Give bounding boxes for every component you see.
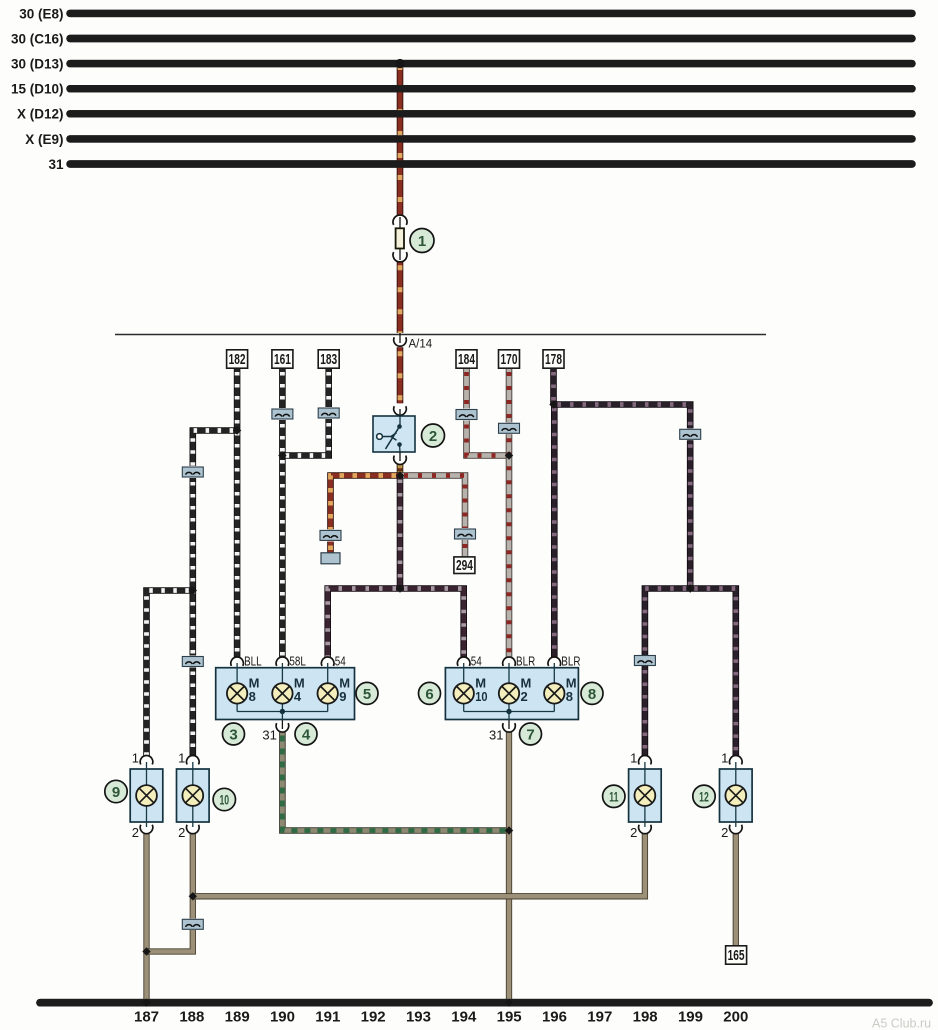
svg-text:10: 10 [475, 689, 488, 704]
svg-text:8: 8 [588, 686, 596, 703]
svg-text:192: 192 [361, 1009, 386, 1026]
svg-text:10: 10 [219, 792, 229, 808]
svg-text:31: 31 [489, 728, 503, 743]
svg-text:11: 11 [609, 789, 619, 805]
svg-text:194: 194 [451, 1009, 477, 1026]
svg-text:A5 Club.ru: A5 Club.ru [872, 1017, 931, 1030]
svg-text:6: 6 [425, 686, 433, 703]
svg-text:1: 1 [132, 751, 139, 766]
svg-text:54: 54 [335, 655, 346, 669]
svg-text:1: 1 [418, 233, 426, 250]
svg-text:182: 182 [229, 351, 246, 367]
svg-text:191: 191 [315, 1009, 340, 1026]
svg-text:2: 2 [429, 428, 437, 445]
svg-text:294: 294 [456, 557, 473, 573]
svg-text:1: 1 [630, 751, 637, 766]
svg-text:193: 193 [406, 1009, 431, 1026]
svg-text:BLR: BLR [561, 655, 580, 669]
svg-text:189: 189 [225, 1009, 250, 1026]
svg-text:197: 197 [587, 1009, 612, 1026]
svg-text:198: 198 [633, 1009, 658, 1026]
svg-text:BLR: BLR [516, 655, 535, 669]
svg-text:1: 1 [721, 751, 728, 766]
svg-text:9: 9 [112, 784, 120, 801]
svg-text:7: 7 [526, 726, 534, 743]
svg-text:183: 183 [320, 351, 337, 367]
svg-text:15 (D10): 15 (D10) [11, 82, 64, 97]
svg-text:187: 187 [134, 1009, 159, 1026]
svg-text:2: 2 [178, 825, 185, 840]
svg-text:178: 178 [545, 351, 562, 367]
svg-text:188: 188 [179, 1009, 204, 1026]
svg-text:200: 200 [723, 1009, 748, 1026]
svg-text:4: 4 [294, 689, 302, 704]
svg-text:190: 190 [270, 1009, 295, 1026]
svg-text:31: 31 [48, 157, 64, 172]
svg-text:2: 2 [132, 825, 139, 840]
svg-text:199: 199 [678, 1009, 703, 1026]
svg-text:BLL: BLL [244, 655, 262, 669]
svg-text:30 (C16): 30 (C16) [11, 31, 64, 46]
svg-text:161: 161 [274, 351, 291, 367]
svg-text:2: 2 [630, 825, 637, 840]
svg-text:A/14: A/14 [409, 339, 433, 351]
svg-text:184: 184 [458, 351, 475, 367]
svg-text:8: 8 [566, 689, 573, 704]
svg-text:8: 8 [249, 689, 256, 704]
svg-text:1: 1 [178, 751, 185, 766]
svg-text:2: 2 [521, 689, 528, 704]
svg-text:X (D12): X (D12) [17, 107, 64, 122]
svg-text:3: 3 [229, 726, 237, 743]
svg-text:2: 2 [721, 825, 728, 840]
svg-text:170: 170 [501, 351, 518, 367]
svg-text:30 (D13): 30 (D13) [11, 57, 64, 72]
svg-text:9: 9 [339, 689, 346, 704]
svg-text:196: 196 [542, 1009, 567, 1026]
svg-text:54: 54 [471, 655, 482, 669]
svg-text:58L: 58L [289, 655, 306, 669]
svg-text:4: 4 [302, 726, 311, 743]
svg-text:195: 195 [497, 1009, 522, 1026]
svg-text:12: 12 [699, 789, 709, 805]
svg-text:165: 165 [728, 947, 745, 963]
svg-text:5: 5 [363, 686, 371, 703]
svg-text:30 (E8): 30 (E8) [19, 6, 63, 21]
svg-text:31: 31 [262, 728, 276, 743]
svg-text:X (E9): X (E9) [25, 132, 63, 147]
